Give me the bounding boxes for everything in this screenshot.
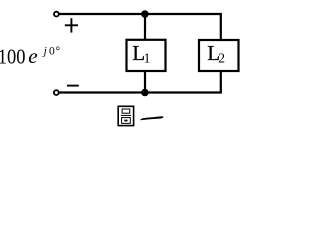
wire junction down to L1 top (144, 14, 146, 41)
svg-text:1: 1 (144, 50, 151, 65)
svg-text:100: 100 (0, 46, 26, 69)
node top junction (141, 10, 149, 18)
node bottom junction (141, 89, 149, 97)
inductor L1 box (127, 40, 166, 71)
wire top horizontal with right drop to L2 (59, 14, 221, 41)
terminal bottom (open circle) (54, 90, 59, 95)
wire L1 bottom (144, 71, 146, 93)
wire L2 bottom (220, 71, 222, 93)
svg-text:e: e (28, 44, 37, 68)
plus polarity mark (65, 18, 78, 32)
terminal top (open circle) (54, 12, 59, 17)
svg-text:j: j (42, 46, 47, 58)
wire bottom horizontal (59, 91, 222, 93)
source value label 100 e^j0deg (0, 44, 61, 69)
minus polarity mark (67, 85, 79, 87)
caption glyph 一 (drawn) (140, 116, 163, 120)
caption glyph 圖 (drawn) (118, 106, 133, 125)
svg-text:0°: 0° (49, 45, 61, 57)
inductor L2 box (199, 40, 239, 71)
svg-text:2: 2 (218, 50, 225, 65)
